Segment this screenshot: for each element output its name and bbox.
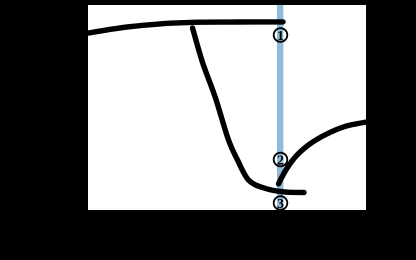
plot area background	[88, 5, 366, 210]
marker circle 1	[274, 28, 288, 42]
marker circle 3	[274, 196, 288, 210]
svg-text:2: 2	[277, 153, 284, 168]
curve C (rising curve lower right)	[279, 122, 369, 184]
blue vertical band	[277, 5, 283, 210]
svg-text:1: 1	[277, 29, 284, 44]
marker circle 2	[274, 153, 288, 167]
curve A (upper gentle curve)	[86, 22, 283, 34]
curve B (steep S descent)	[193, 28, 305, 193]
svg-text:3: 3	[277, 197, 284, 212]
